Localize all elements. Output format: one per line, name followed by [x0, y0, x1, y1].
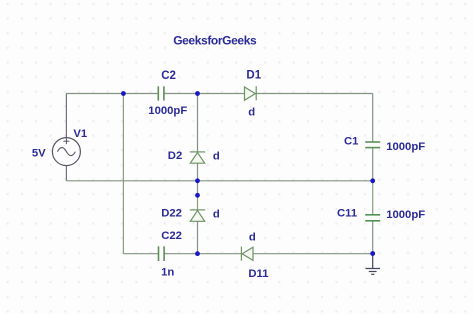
wire middle column D22 anode	[197, 195, 199, 210]
capacitor C11	[365, 215, 380, 221]
diode D2	[190, 152, 205, 163]
svg-text:D1: D1	[246, 69, 261, 81]
svg-text:1n: 1n	[161, 267, 174, 279]
svg-text:D22: D22	[161, 208, 182, 220]
wire bottom rail left segment	[123, 253, 158, 255]
wire left column	[122, 94, 124, 254]
svg-text:C11: C11	[337, 208, 357, 220]
capacitor C1	[365, 142, 380, 148]
diode D1	[245, 86, 257, 100]
junction node mid-rail middle	[195, 178, 200, 183]
wire right column mid rail to C11	[372, 181, 374, 215]
svg-text:d: d	[248, 107, 255, 119]
wire top rail right segment	[256, 93, 373, 95]
svg-text:C22: C22	[161, 230, 182, 242]
svg-text:C1: C1	[344, 135, 358, 147]
wire mid rail	[66, 180, 372, 182]
svg-text:D11: D11	[248, 268, 268, 280]
wire V1 bottom	[65, 166, 67, 181]
svg-text:1000pF: 1000pF	[148, 105, 187, 117]
capacitor C22	[159, 246, 165, 261]
wire middle column node segment	[197, 181, 199, 196]
ground	[366, 254, 381, 275]
junction node bottom-right	[370, 251, 375, 256]
wire bottom rail middle segment	[164, 253, 241, 255]
junction node bottom-middle	[195, 251, 200, 256]
wire top rail left segment	[66, 93, 157, 95]
voltage source V1	[52, 138, 80, 166]
wire right column C11 to bottom rail	[372, 221, 374, 254]
svg-text:V1: V1	[73, 128, 87, 140]
wire top rail middle segment	[164, 93, 244, 95]
wire middle column D2 anode	[197, 94, 199, 152]
diode D11	[241, 247, 253, 261]
junction node top-left	[121, 91, 126, 96]
svg-text:1000pF: 1000pF	[386, 141, 425, 153]
wire bottom rail right segment	[253, 253, 373, 255]
svg-text:d: d	[213, 209, 220, 221]
wire middle column D22 to bottom rail	[197, 221, 199, 253]
svg-text:1000pF: 1000pF	[386, 209, 425, 221]
svg-text:d: d	[213, 150, 220, 162]
wire right column C1 to mid rail	[372, 148, 374, 181]
wire right column top	[372, 94, 374, 143]
svg-text:C2: C2	[161, 70, 176, 82]
svg-text:GeeksforGeeks: GeeksforGeeks	[173, 34, 257, 48]
capacitor C2	[158, 86, 164, 100]
diode D22	[190, 210, 205, 221]
svg-text:d: d	[249, 232, 256, 244]
svg-text:5V: 5V	[32, 148, 46, 160]
junction node mid-rail right	[370, 178, 375, 183]
junction node middle column	[195, 193, 200, 198]
wire middle column D2 to mid rail	[197, 163, 199, 181]
wire V1 top	[65, 94, 67, 138]
junction node top-middle	[195, 91, 200, 96]
svg-text:D2: D2	[168, 150, 182, 162]
